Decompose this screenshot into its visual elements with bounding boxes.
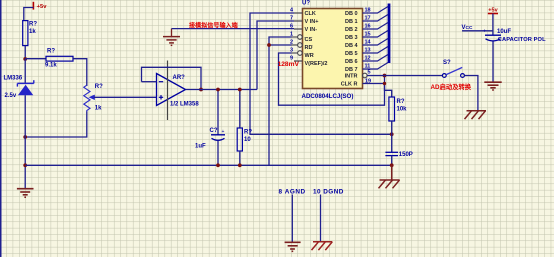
power +5V (right) bbox=[488, 13, 498, 15]
data bus DB0-DB7 entries bbox=[363, 7, 389, 70]
ground (left rail earth) bbox=[17, 189, 34, 198]
svg-text:1k: 1k bbox=[29, 29, 36, 35]
wire node to R2 bbox=[25, 58, 46, 60]
svg-text:DB 7: DB 7 bbox=[345, 67, 358, 73]
capacitor C3 10uF CAPACITOR POL bbox=[483, 29, 546, 43]
wire pot bottom to rail bbox=[25, 112, 87, 138]
svg-text:+5v: +5v bbox=[37, 4, 48, 10]
svg-text:DB 2: DB 2 bbox=[345, 27, 358, 33]
pin INTR bubble bbox=[363, 73, 368, 78]
capacitor C1 1uF bbox=[195, 90, 225, 166]
svg-text:128mV: 128mV bbox=[278, 61, 300, 68]
wire op-amp output bbox=[186, 89, 258, 91]
svg-text:VCC: VCC bbox=[462, 25, 473, 31]
svg-text:RD: RD bbox=[305, 45, 313, 51]
resistor R1 1k bbox=[23, 21, 38, 46]
resistor R3 10 bbox=[237, 90, 252, 166]
net label Vcc wire bbox=[462, 30, 493, 32]
svg-text:1k: 1k bbox=[95, 106, 102, 112]
sheet left border bbox=[0, 0, 2, 257]
svg-text:9.1k: 9.1k bbox=[45, 63, 57, 69]
wire RD to drop bbox=[269, 44, 292, 46]
svg-text:AD启动及转换: AD启动及转换 bbox=[431, 82, 472, 91]
wire +5V to R1 bbox=[24, 8, 34, 21]
bottom AGND bus wire bbox=[25, 164, 392, 166]
pin stubs left (CLK, VIN+, VIN-, VREF/2) bbox=[294, 13, 303, 61]
wire op-amp inverting input bbox=[142, 81, 157, 83]
capacitor C2 150P bbox=[385, 134, 412, 165]
svg-text:R?: R? bbox=[47, 49, 55, 55]
wire feedback loop bbox=[142, 67, 202, 89]
svg-text:5: 5 bbox=[368, 69, 371, 75]
svg-text:CLK: CLK bbox=[305, 11, 316, 17]
svg-text:2.5v: 2.5v bbox=[5, 93, 17, 99]
resistor R2 9.1k bbox=[45, 49, 73, 69]
chassis ground (switch) bbox=[465, 111, 487, 119]
chassis ground (DGND) bbox=[312, 242, 333, 250]
svg-text:7: 7 bbox=[290, 16, 293, 22]
svg-text:10k: 10k bbox=[397, 107, 408, 113]
svg-text:S?: S? bbox=[443, 60, 451, 66]
svg-text:CS: CS bbox=[305, 37, 313, 43]
svg-text:1: 1 bbox=[290, 32, 293, 38]
svg-text:+: + bbox=[222, 129, 225, 135]
chassis ground (RC node) bbox=[379, 165, 400, 188]
wire switch to ground bbox=[464, 76, 478, 111]
svg-text:R?: R? bbox=[95, 84, 103, 90]
wire cap to ground bbox=[492, 42, 494, 83]
node junction rail/bottom wire bbox=[23, 163, 27, 167]
svg-text:LM336: LM336 bbox=[4, 76, 23, 82]
power +5V (left) bbox=[32, 2, 34, 10]
svg-text:C?: C? bbox=[210, 128, 218, 134]
potentiometer R? 1k bbox=[84, 84, 103, 112]
svg-text:DB 4: DB 4 bbox=[345, 43, 358, 49]
wire AGND bbox=[291, 195, 293, 242]
svg-text:AR?: AR? bbox=[173, 75, 186, 81]
resistor R4 10k bbox=[389, 97, 407, 134]
switch S1 bbox=[442, 60, 464, 77]
svg-text:INTR: INTR bbox=[345, 74, 358, 80]
op-amp U1 ADC0804 body bbox=[302, 1, 363, 101]
ground (right cap earth) bbox=[484, 82, 501, 90]
svg-text:10uF: 10uF bbox=[497, 29, 511, 35]
svg-text:8 AGND: 8 AGND bbox=[279, 189, 306, 196]
wire zener anode down rail bbox=[24, 95, 26, 189]
svg-text:1/2 LM358: 1/2 LM358 bbox=[170, 102, 199, 108]
svg-text:WR: WR bbox=[305, 53, 314, 59]
svg-text:V IN+: V IN+ bbox=[305, 19, 319, 25]
wire pot wiper to op-amp + input bbox=[94, 96, 157, 98]
svg-text:10: 10 bbox=[244, 137, 251, 143]
svg-text:ADC0804LCJ(SO): ADC0804LCJ(SO) bbox=[302, 93, 354, 100]
svg-text:+5v: +5v bbox=[488, 8, 498, 14]
svg-text:2: 2 bbox=[290, 40, 293, 46]
wire VIN- to ground bbox=[172, 28, 295, 30]
node junction CLKR vertical bbox=[383, 82, 386, 85]
wire DGND bbox=[320, 195, 322, 242]
wire rail node59 to zener bbox=[24, 59, 26, 84]
svg-text:9: 9 bbox=[290, 56, 293, 62]
svg-text:CAPACITOR POL: CAPACITOR POL bbox=[498, 37, 546, 43]
pin numbers right bbox=[365, 8, 372, 85]
wire VIN+ from op-amp output bbox=[257, 21, 294, 90]
node junction C1 bottom bbox=[216, 163, 220, 167]
data bus bbox=[388, 4, 391, 64]
svg-text:DB 0: DB 0 bbox=[345, 11, 358, 17]
svg-text:+: + bbox=[483, 29, 486, 35]
pin names left inside bbox=[305, 11, 328, 67]
svg-text:接模拟信号输入端: 接模拟信号输入端 bbox=[188, 21, 238, 29]
wire CS/RD ground drop bbox=[269, 37, 292, 165]
pin names right inside bbox=[341, 11, 359, 88]
svg-text:150P: 150P bbox=[399, 152, 413, 158]
svg-text:U?: U? bbox=[302, 1, 310, 7]
svg-text:R?: R? bbox=[29, 22, 37, 28]
node junction feedback/output bbox=[199, 88, 203, 92]
node junction C2 bottom bbox=[390, 163, 394, 167]
node junction RC/CLK bbox=[390, 132, 394, 136]
svg-text:DB 3: DB 3 bbox=[345, 35, 358, 41]
node junction left rail / R2 bbox=[23, 57, 27, 61]
pin numbers left bbox=[290, 8, 294, 62]
pin bubbles CS RD WR bbox=[292, 35, 302, 56]
svg-text:1uF: 1uF bbox=[195, 143, 206, 149]
wire WR to INTR bridge bbox=[279, 53, 385, 105]
svg-text:10 DGND: 10 DGND bbox=[313, 189, 344, 196]
node junction R3 top bbox=[238, 88, 242, 92]
svg-text:R?: R? bbox=[244, 130, 252, 136]
svg-text:V IN-: V IN- bbox=[305, 27, 318, 33]
ground (AGND earth) bbox=[285, 242, 301, 251]
op-amp power stub top bbox=[167, 61, 169, 121]
wire +5v to cap bbox=[492, 14, 494, 36]
svg-text:V(REF)/2: V(REF)/2 bbox=[305, 61, 328, 67]
wire R1 bottom to node bbox=[24, 46, 26, 59]
ground (VIN- wire earth) bbox=[163, 29, 180, 46]
wire CLK R jog to R4 bbox=[363, 84, 392, 98]
op-amp AR1 bbox=[157, 74, 200, 108]
svg-text:6: 6 bbox=[290, 24, 293, 30]
svg-text:CLK R: CLK R bbox=[341, 82, 358, 88]
svg-text:3: 3 bbox=[290, 48, 293, 54]
svg-text:DB 5: DB 5 bbox=[345, 51, 358, 57]
svg-text:DB 6: DB 6 bbox=[345, 59, 358, 65]
wire CLK IN to RC node bbox=[250, 13, 392, 134]
wire R2 to potentiometer top bbox=[73, 59, 87, 86]
svg-text:R?: R? bbox=[397, 99, 405, 105]
wire INTR to switch bbox=[367, 75, 442, 77]
node junction C1 top bbox=[216, 88, 220, 92]
node junction rail/pot-return bbox=[23, 135, 27, 139]
node junction RD/CS drop bbox=[267, 43, 271, 47]
node junction INTR/WR bbox=[383, 74, 387, 78]
node junction R3 bottom bbox=[238, 163, 242, 167]
svg-text:DB 1: DB 1 bbox=[345, 19, 358, 25]
zener diode LM336 2.5v bbox=[4, 76, 34, 100]
